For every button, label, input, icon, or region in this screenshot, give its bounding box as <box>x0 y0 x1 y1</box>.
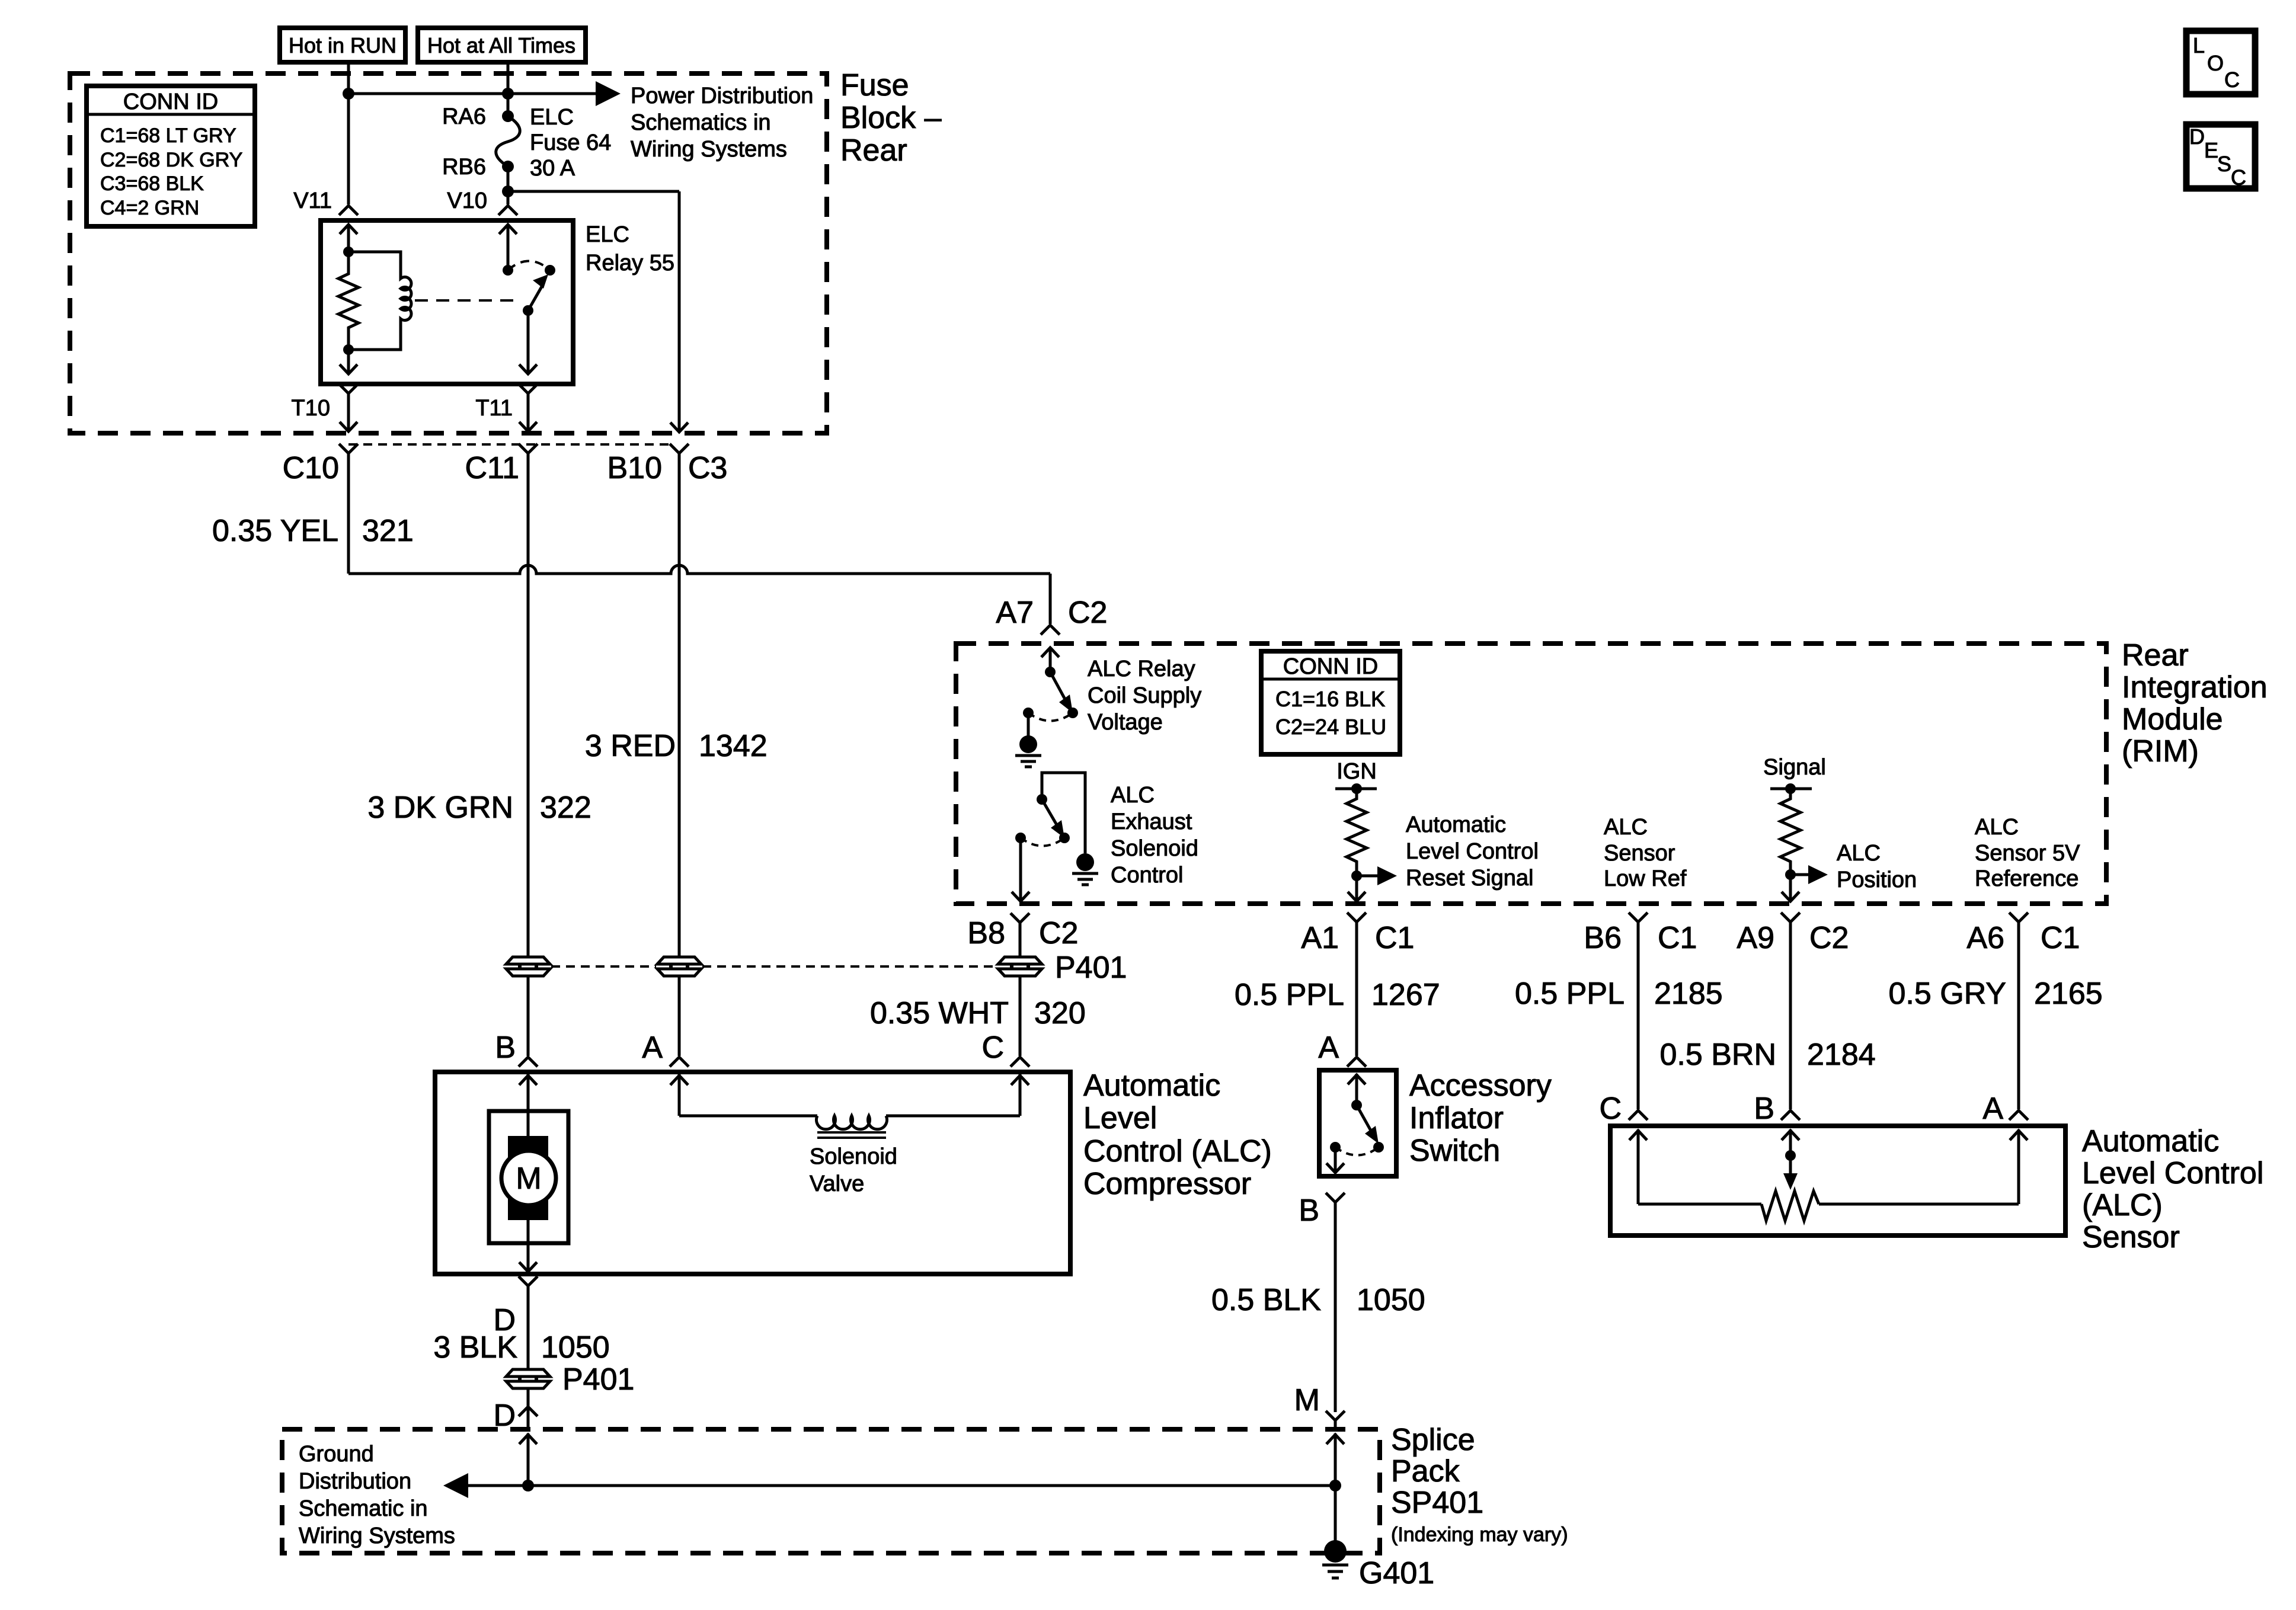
node: coil top junction <box>343 247 354 257</box>
switch contact right (inflator) <box>1373 1142 1384 1153</box>
wire 0.5 PPL 2185 (B6 to sensor C) <box>1637 922 1640 1109</box>
label P401 <box>1055 950 1127 985</box>
svg-text:Splice: Splice <box>1391 1423 1475 1457</box>
wire: coil to T10 exit <box>340 350 357 374</box>
wire: position to A9 exit <box>1782 875 1799 901</box>
svg-text:Control (ALC): Control (ALC) <box>1083 1134 1272 1169</box>
connector female B6 <box>1629 913 1648 922</box>
wire: sensor C leg <box>1629 1129 1761 1204</box>
connector male C (compressor) <box>1011 1057 1029 1067</box>
label ALC Sensor Low Ref <box>1604 815 1687 891</box>
svg-text:Integration: Integration <box>2122 670 2268 705</box>
svg-text:T10: T10 <box>292 396 330 421</box>
pin label B (switch) <box>1299 1193 1319 1228</box>
inline connector P401 (C wire) <box>998 957 1042 976</box>
svg-text:ALC Relay: ALC Relay <box>1088 657 1195 681</box>
fuse block dashed box "Fuse Block - Rear" <box>70 73 827 433</box>
pin label RA6 <box>442 104 486 129</box>
svg-text:Level Control: Level Control <box>2082 1156 2263 1190</box>
label 0.35 WHT | 320 <box>870 996 1086 1030</box>
label Fuse Block - Rear <box>840 68 942 168</box>
label ELC Fuse 64 30 A <box>530 105 611 181</box>
pin label D <box>493 1303 516 1337</box>
arrow: ALC Position <box>1790 865 1828 884</box>
DESC box <box>2186 124 2255 190</box>
pin label A (compressor) <box>642 1030 663 1065</box>
svg-text:M: M <box>1294 1383 1320 1417</box>
pin label B (sensor) <box>1754 1092 1774 1126</box>
label Automatic Level Control (ALC) Sensor <box>2082 1124 2263 1254</box>
svg-text:Rear: Rear <box>840 133 907 168</box>
label ELC Relay 55 <box>586 222 674 276</box>
label Solenoid Valve <box>810 1144 897 1196</box>
ALC sensor box <box>1610 1126 2065 1235</box>
relay armature with arrow <box>523 274 548 316</box>
svg-text:322: 322 <box>540 790 591 825</box>
label Automatic Level Control Reset Signal <box>1406 812 1539 891</box>
label 0.5 BLK | 1050 <box>1211 1283 1425 1317</box>
connector female A1 <box>1347 913 1366 922</box>
svg-text:A7: A7 <box>996 596 1034 630</box>
switch contact left (inflator) <box>1330 1142 1341 1153</box>
svg-text:Accessory: Accessory <box>1409 1068 1552 1103</box>
label 0.5 GRY | 2165 <box>1889 977 2103 1011</box>
connector female B8 <box>1011 913 1029 923</box>
svg-text:D: D <box>2189 124 2205 149</box>
wire: inflator contact to B exit <box>1326 1147 1344 1173</box>
svg-text:Compressor: Compressor <box>1083 1167 1251 1201</box>
svg-text:P401: P401 <box>562 1362 634 1397</box>
svg-text:V10: V10 <box>447 188 487 213</box>
CONN ID table (RIM) <box>1261 651 1400 754</box>
switch travel arc (inflator) <box>1335 1147 1379 1156</box>
svg-text:1267: 1267 <box>1371 978 1440 1012</box>
switch travel arc (exhaust control) <box>1021 838 1064 846</box>
wire: sensor A leg <box>1819 1129 2028 1204</box>
wire 0.5 BRN 2184 (A9 to sensor B) <box>1789 922 1792 1109</box>
svg-text:Distribution: Distribution <box>299 1469 411 1494</box>
relay contact (fed) <box>503 265 513 276</box>
svg-text:Hot in RUN: Hot in RUN <box>289 33 396 57</box>
svg-text:320: 320 <box>1034 996 1086 1030</box>
svg-text:0.35 WHT: 0.35 WHT <box>870 996 1009 1030</box>
label Accessory Inflator Switch <box>1409 1068 1552 1168</box>
svg-text:C: C <box>981 1030 1004 1065</box>
wire 3 RED 1342 (C3 down) <box>678 453 681 956</box>
wire: fuse to V10 <box>507 167 510 204</box>
relay coil (inductor) <box>348 252 411 350</box>
svg-text:C1: C1 <box>1375 921 1414 955</box>
ELC Relay 55 box <box>321 220 573 384</box>
svg-text:Automatic: Automatic <box>2082 1124 2219 1158</box>
wire: P401 to ground box with male connector <box>519 1389 538 1429</box>
RIM dashed box (Rear Integration Module) <box>956 644 2106 904</box>
label Automatic Level Control (ALC) Compressor <box>1083 1068 1272 1201</box>
svg-text:ALC: ALC <box>1111 783 1155 808</box>
switch contact left (coil supply) <box>1023 708 1034 718</box>
CONN ID table (fuse block) <box>87 86 255 226</box>
svg-text:0.5 GRY: 0.5 GRY <box>1889 977 2006 1011</box>
pin label A7 <box>996 596 1034 630</box>
wire: drop to A7 <box>1049 574 1052 624</box>
wire: power distribution takeoff with arrow <box>348 81 621 106</box>
label Ground Distribution Schematic in Wiring Systems <box>299 1442 455 1548</box>
resistor (ALC position pull-up) <box>1780 789 1801 875</box>
relay contact (output) <box>545 265 555 276</box>
svg-text:Wiring Systems: Wiring Systems <box>631 137 787 162</box>
node: junction on V11 feed <box>343 88 354 100</box>
switch travel arc (coil supply) <box>1028 713 1073 721</box>
svg-text:E: E <box>2204 138 2218 162</box>
wire: A entry to solenoid <box>670 1074 817 1116</box>
node: coil bottom junction <box>343 344 354 355</box>
wire: Hot in RUN down to relay (V11 feed) <box>347 62 350 204</box>
inline connector P401 (A wire) <box>657 957 701 976</box>
svg-text:Rear: Rear <box>2122 638 2189 673</box>
svg-text:Automatic: Automatic <box>1083 1068 1220 1103</box>
svg-text:Low Ref: Low Ref <box>1604 866 1687 891</box>
label P401 (ground) <box>562 1362 634 1397</box>
node: junction on fuse feed <box>502 88 514 100</box>
svg-text:3 RED: 3 RED <box>585 729 676 763</box>
motor M (compressor motor) <box>489 1111 568 1243</box>
switch contact right (exhaust control) <box>1059 833 1070 843</box>
connector male V10 <box>498 206 517 215</box>
connector male A (compressor) <box>670 1057 689 1067</box>
switch pivot (coil supply) <box>1045 667 1073 713</box>
switch contact right (coil supply) <box>1067 708 1078 718</box>
svg-text:1342: 1342 <box>699 729 768 763</box>
wire: horizontal run y=968 with hops over C11 and B10 wires <box>348 565 1050 574</box>
svg-text:P401: P401 <box>1055 950 1127 985</box>
pin label C1 (B6) <box>1658 921 1697 955</box>
ground (exhaust control) <box>1072 853 1098 885</box>
wire 3 DK GRN 322 (C11 down) <box>527 453 530 956</box>
label 0.35 YEL | 321 <box>212 514 414 548</box>
pin label M <box>1294 1383 1320 1417</box>
wire 0.5 BLK 1050 (switch to splice) <box>1334 1202 1337 1412</box>
switch contact left (exhaust control) <box>1015 833 1026 843</box>
node V10 junction <box>502 185 514 197</box>
svg-text:A6: A6 <box>1966 921 2004 955</box>
wire: M entry into splice pack <box>1326 1433 1344 1486</box>
wire: Hot at All Times down to fuse <box>507 62 510 116</box>
svg-text:Automatic: Automatic <box>1406 812 1506 837</box>
connector female A9 <box>1781 913 1800 922</box>
wire: B10/C3 drop inside fuse block <box>670 191 688 432</box>
wire 0.5 GRY 2165 (A6 to sensor A) <box>2017 922 2020 1109</box>
svg-text:C3: C3 <box>688 451 727 485</box>
label 0.5 PPL | 1267 <box>1235 978 1440 1012</box>
Accessory Inflator Switch box <box>1319 1070 1396 1176</box>
pin label A (switch) <box>1318 1030 1339 1065</box>
pin label V11 <box>293 188 332 213</box>
connector male B (compressor) <box>519 1057 538 1067</box>
node: splice junction SP401 <box>1329 1480 1341 1491</box>
solenoid valve coil <box>817 1116 887 1138</box>
label 3 DK GRN | 322 <box>367 790 591 825</box>
wire: C11 branch down to compressor B <box>527 977 530 1056</box>
svg-text:C2: C2 <box>1809 921 1849 955</box>
node: position signal junction <box>1785 869 1796 880</box>
connector male A (sensor) <box>2009 1110 2028 1120</box>
svg-text:2165: 2165 <box>2034 977 2103 1011</box>
svg-text:Reset Signal: Reset Signal <box>1406 866 1533 891</box>
ground (coil supply contact) <box>1015 713 1041 767</box>
svg-text:30 A: 30 A <box>530 156 575 181</box>
svg-text:A: A <box>642 1030 663 1065</box>
svg-text:A: A <box>1982 1092 2003 1126</box>
wire: P401 down to compressor C <box>1019 977 1022 1056</box>
wire: motor to D exit <box>519 1218 537 1272</box>
arrow: Automatic Level Control Reset Signal <box>1357 866 1397 885</box>
connector B10/C3 <box>670 444 689 453</box>
svg-text:ALC: ALC <box>1837 841 1881 866</box>
LOC box <box>2186 31 2255 94</box>
svg-text:(RIM): (RIM) <box>2122 734 2199 769</box>
wire: solenoid to C pin riser <box>886 1074 1029 1116</box>
ground distribution / splice pack dashed box <box>282 1429 1380 1553</box>
pin label C2 (RIM) <box>1068 596 1107 630</box>
node: reset signal junction <box>1351 870 1362 881</box>
svg-text:(Indexing may vary): (Indexing may vary) <box>1391 1523 1568 1546</box>
svg-text:1050: 1050 <box>541 1330 610 1365</box>
ALC relay coil supply switch: entry arrow <box>1041 647 1059 672</box>
label ALC Exhaust Solenoid Control <box>1111 783 1198 888</box>
svg-text:Schematics in: Schematics in <box>631 110 771 135</box>
pin label C (sensor) <box>1599 1092 1622 1126</box>
inline connector P401 (B wire) <box>506 957 550 976</box>
svg-text:2185: 2185 <box>1654 977 1723 1011</box>
svg-text:CONN ID: CONN ID <box>123 89 218 114</box>
svg-text:B: B <box>1299 1193 1319 1228</box>
pin label A6 <box>1966 921 2004 955</box>
svg-text:2184: 2184 <box>1807 1038 1876 1072</box>
switch pivot (exhaust control) <box>1037 794 1064 838</box>
svg-text:0.5 PPL: 0.5 PPL <box>1235 978 1344 1012</box>
label G401 <box>1359 1556 1434 1590</box>
svg-text:0.5 PPL: 0.5 PPL <box>1515 977 1625 1011</box>
pin label C1 (A1) <box>1375 921 1414 955</box>
svg-text:Schematic in: Schematic in <box>299 1496 428 1521</box>
pin label A9 <box>1737 921 1774 955</box>
svg-text:A9: A9 <box>1737 921 1774 955</box>
svg-text:RA6: RA6 <box>442 104 486 129</box>
label 0.5 BRN | 2184 <box>1659 1038 1875 1072</box>
svg-text:C: C <box>2224 68 2240 92</box>
svg-text:ELC: ELC <box>530 105 574 130</box>
wire: sensor B wiper <box>1782 1129 1799 1190</box>
svg-text:A: A <box>1318 1030 1339 1065</box>
svg-text:Fuse 64: Fuse 64 <box>530 130 611 155</box>
svg-text:B10: B10 <box>607 451 662 485</box>
connector female D (compressor) <box>519 1276 538 1369</box>
svg-text:C2=24 BLU: C2=24 BLU <box>1275 715 1386 739</box>
svg-text:RB6: RB6 <box>442 155 486 180</box>
svg-text:Sensor: Sensor <box>1604 841 1675 866</box>
svg-text:B: B <box>495 1030 516 1065</box>
label Signal <box>1763 755 1826 780</box>
connector C10 <box>339 444 358 453</box>
IGN supply bar <box>1335 783 1377 794</box>
wire: D entry into ground box <box>519 1433 537 1486</box>
svg-text:C3=68 BLK: C3=68 BLK <box>100 172 204 195</box>
pin label C2 (B8) <box>1039 916 1078 950</box>
svg-text:Valve: Valve <box>810 1172 864 1196</box>
pin label C11 <box>465 451 519 485</box>
svg-text:ALC: ALC <box>1604 815 1648 840</box>
label 3 BLK | 1050 <box>433 1330 609 1365</box>
svg-text:Level: Level <box>1083 1101 1157 1135</box>
ground G401 <box>1322 1540 1348 1578</box>
connector male V11 <box>339 206 358 215</box>
pin label B (compressor) <box>495 1030 516 1065</box>
connector male A7 <box>1041 625 1060 635</box>
svg-text:B: B <box>1754 1092 1774 1126</box>
svg-text:C1=68 LT GRY: C1=68 LT GRY <box>100 124 236 147</box>
svg-text:321: 321 <box>362 514 414 548</box>
relay coil feed arrow (V11 entry) <box>340 224 357 252</box>
pin label C (compressor) <box>981 1030 1004 1065</box>
svg-text:SP401: SP401 <box>1391 1486 1483 1520</box>
connector male C (sensor) <box>1629 1110 1648 1120</box>
svg-text:Switch: Switch <box>1409 1134 1500 1168</box>
switch arm (inflator) <box>1348 1074 1379 1144</box>
svg-text:C10: C10 <box>283 451 339 485</box>
svg-text:Sensor 5V: Sensor 5V <box>1975 841 2080 866</box>
node: ground junction (D) <box>522 1480 534 1491</box>
svg-text:Voltage: Voltage <box>1088 710 1163 735</box>
svg-text:Ground: Ground <box>299 1442 374 1467</box>
header box "Hot in RUN" <box>280 28 405 62</box>
connector T11 <box>519 384 538 431</box>
pin label A (sensor) <box>1982 1092 2003 1126</box>
pin label C10 <box>283 451 339 485</box>
svg-text:C: C <box>1599 1092 1622 1126</box>
svg-text:IGN: IGN <box>1336 759 1377 784</box>
svg-text:0.5 BRN: 0.5 BRN <box>1659 1038 1776 1072</box>
svg-text:Power Distribution: Power Distribution <box>631 84 813 108</box>
svg-text:C4=2 GRN: C4=2 GRN <box>100 197 199 219</box>
svg-text:3 BLK: 3 BLK <box>433 1330 517 1365</box>
Signal bar <box>1770 783 1812 794</box>
wire: reset signal to A1 exit <box>1348 876 1366 901</box>
connector female A6 <box>2009 913 2028 922</box>
label IGN <box>1336 759 1377 784</box>
svg-text:Solenoid: Solenoid <box>810 1144 897 1169</box>
label Rear Integration Module (RIM) <box>2122 638 2268 769</box>
connector male B (sensor) <box>1781 1110 1800 1120</box>
svg-text:V11: V11 <box>293 188 332 213</box>
label 3 RED | 1342 <box>585 729 768 763</box>
pin label A1 <box>1301 921 1339 955</box>
svg-text:Sensor: Sensor <box>2082 1220 2180 1254</box>
svg-text:(ALC): (ALC) <box>2082 1188 2163 1222</box>
svg-text:CONN ID: CONN ID <box>1283 654 1378 679</box>
svg-text:C2=68 DK GRY: C2=68 DK GRY <box>100 149 242 171</box>
header box "Hot at All Times" <box>418 28 586 62</box>
svg-text:L: L <box>2193 33 2205 57</box>
connector row dashed link line <box>348 443 670 446</box>
potentiometer resistor (sensor) <box>1761 1191 1819 1221</box>
label ALC Position <box>1837 841 1917 892</box>
fuse ELC Fuse 64 30 A <box>496 110 520 172</box>
svg-text:Hot at All Times: Hot at All Times <box>427 33 575 57</box>
connector male A (switch) <box>1347 1057 1366 1067</box>
connector female M <box>1326 1411 1345 1429</box>
pin label B8 <box>967 916 1005 950</box>
wire: armature to T11 exit <box>519 311 537 374</box>
svg-text:Coil Supply: Coil Supply <box>1088 683 1201 708</box>
resistor (ALC reset pull-up) <box>1347 789 1367 876</box>
connector C11 <box>519 444 538 453</box>
svg-text:C1: C1 <box>2041 921 2080 955</box>
svg-text:Pack: Pack <box>1391 1454 1460 1489</box>
label Splice Pack SP401 (Indexing may vary) <box>1391 1423 1568 1546</box>
resistor (relay coil resistance) <box>338 252 359 350</box>
dashed connector row line P401 <box>551 965 997 968</box>
svg-text:0.35 YEL: 0.35 YEL <box>212 514 338 548</box>
inline connector P401 (ground wire) <box>506 1369 550 1388</box>
wire: V10 right to B10 drop <box>508 190 679 193</box>
pin label T10 <box>292 396 330 421</box>
wire: B entry to motor <box>519 1074 537 1138</box>
wire 0.35 YEL 321 (C10 to RIM A7) <box>347 453 350 574</box>
svg-text:Solenoid: Solenoid <box>1111 836 1198 861</box>
label ALC Relay Coil Supply Voltage <box>1088 657 1201 735</box>
svg-text:ELC: ELC <box>586 222 629 247</box>
relay switch common feed (V10 entry) <box>499 224 517 270</box>
svg-text:C2: C2 <box>1068 596 1107 630</box>
svg-text:Control: Control <box>1111 863 1184 888</box>
svg-text:B6: B6 <box>1584 921 1622 955</box>
svg-text:C2: C2 <box>1039 916 1078 950</box>
svg-text:Signal: Signal <box>1763 755 1826 780</box>
pin label B10 <box>607 451 662 485</box>
connector female B (switch) <box>1326 1193 1345 1202</box>
svg-text:B8: B8 <box>967 916 1005 950</box>
pin label C2 (A9) <box>1809 921 1849 955</box>
svg-text:C11: C11 <box>465 451 519 485</box>
ALC exhaust solenoid control switch: top loop <box>1042 773 1085 853</box>
svg-text:C1=16 BLK: C1=16 BLK <box>1275 687 1385 711</box>
svg-text:C: C <box>2231 165 2246 190</box>
svg-text:Module: Module <box>2122 702 2223 737</box>
svg-text:A1: A1 <box>1301 921 1339 955</box>
wire: splice to G401 <box>1334 1486 1337 1548</box>
svg-text:3 DK GRN: 3 DK GRN <box>367 790 513 825</box>
svg-text:Inflator: Inflator <box>1409 1101 1504 1135</box>
pin label C1 (A6) <box>2041 921 2080 955</box>
svg-text:ALC: ALC <box>1975 815 2019 840</box>
pin label RB6 <box>442 155 486 180</box>
ALC compressor box <box>435 1072 1070 1274</box>
wire: ground bus with left arrow <box>443 1473 1335 1498</box>
pin label D (lower) <box>493 1398 516 1433</box>
svg-text:C1: C1 <box>1658 921 1697 955</box>
svg-text:T11: T11 <box>475 396 513 421</box>
pin label B6 <box>1584 921 1622 955</box>
svg-text:0.5 BLK: 0.5 BLK <box>1211 1283 1321 1317</box>
svg-text:Wiring Systems: Wiring Systems <box>299 1523 455 1548</box>
wire: C3 branch down to compressor A <box>678 977 681 1056</box>
svg-text:Position: Position <box>1837 868 1917 892</box>
connector T10 <box>339 384 358 431</box>
svg-text:Reference: Reference <box>1975 866 2078 891</box>
svg-text:O: O <box>2207 51 2224 75</box>
pin label C3 <box>688 451 727 485</box>
label ALC Sensor 5V Reference <box>1975 815 2080 891</box>
